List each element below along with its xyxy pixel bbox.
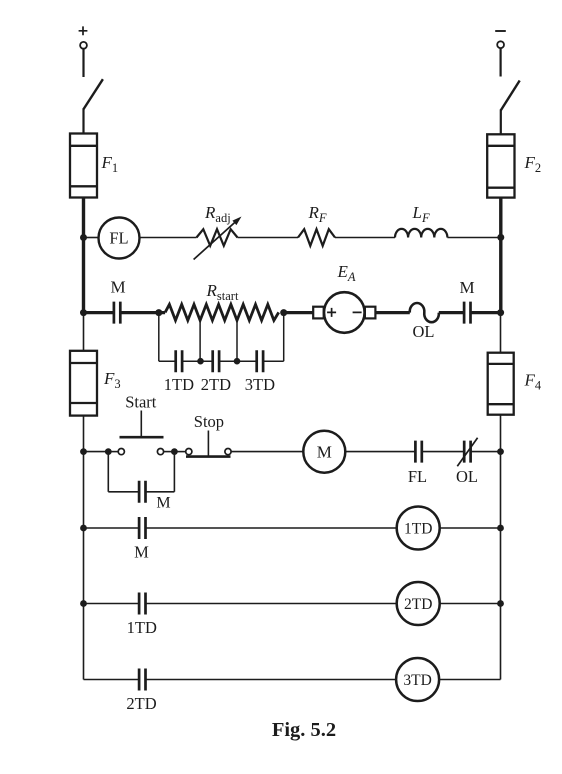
fuse F2 (487, 134, 514, 197)
svg-text:Radj: Radj (204, 203, 231, 225)
svg-text:F3: F3 (103, 369, 121, 391)
resistor RF (298, 229, 335, 246)
disconnect switch blade (right) (501, 81, 520, 111)
wire FL to Radj (140, 237, 197, 239)
wire Start to node (164, 451, 175, 453)
svg-text:FL: FL (408, 467, 427, 486)
wire: left bus to F3 (83, 313, 85, 351)
wire FL to OL contact (422, 451, 464, 453)
pushbutton Stop (NC) (186, 431, 231, 457)
wire OL contact to right bus (471, 451, 501, 453)
overload heater OL (410, 303, 439, 322)
wire: armature row left segment (84, 311, 114, 314)
coil M (303, 431, 345, 473)
contact OL (NC with slash) (457, 438, 477, 467)
resistor Rstart (165, 304, 279, 320)
svg-text:EA: EA (337, 262, 356, 284)
pushbutton Start (NO) (118, 411, 163, 455)
fuse F4 (488, 353, 514, 415)
node: rung3 right (497, 600, 504, 607)
svg-text:M: M (134, 543, 149, 562)
contact M (armature, left) (114, 302, 120, 324)
svg-text:Start: Start (125, 393, 157, 412)
wire Stop to coil M (231, 451, 303, 453)
wire node to Stop (174, 451, 185, 453)
svg-text:Stop: Stop (194, 412, 224, 431)
wire: seal-in branch bottom right (146, 491, 175, 493)
disconnect switch blade (left) (83, 79, 103, 109)
svg-text:M: M (317, 443, 332, 462)
contact 2TD (rung4) (139, 669, 145, 691)
node: bypass junction 1 (197, 358, 204, 365)
contact 1TD (bypass) (176, 350, 182, 372)
contact M (rung2) (139, 517, 145, 539)
node: rung1 right (497, 448, 504, 455)
svg-text:Rstart: Rstart (206, 281, 239, 303)
wire M contact to Rstart (120, 311, 165, 314)
svg-text:3TD: 3TD (245, 375, 275, 394)
motor armature EA (313, 292, 375, 333)
node: Rstart left (155, 309, 162, 316)
svg-text:2TD: 2TD (404, 596, 432, 613)
wire rung3 right (440, 603, 501, 605)
wire rung2 middle (146, 527, 397, 529)
contact 3TD (bypass) (257, 350, 263, 372)
wire: seal-in branch bottom left (108, 491, 139, 493)
node: left armature junction (80, 309, 87, 316)
coil FL (field loss relay) (99, 218, 140, 259)
svg-text:F1: F1 (101, 153, 119, 175)
svg-text:F2: F2 (524, 153, 542, 175)
wire rung4 middle (146, 679, 397, 681)
svg-text:FL: FL (109, 229, 128, 248)
wire Radj to RF (238, 237, 299, 239)
wire rung3 left (84, 603, 140, 605)
wire motor to OL heater (375, 311, 409, 314)
wire from switch to fuse F1 (82, 109, 84, 134)
svg-text:OL: OL (456, 467, 478, 486)
node: Rstart right (280, 309, 287, 316)
contact 2TD (bypass) (213, 350, 219, 372)
coil 3TD (396, 658, 439, 701)
wire rung2 right (440, 527, 501, 529)
wire rung2 left (84, 527, 140, 529)
wire from switch to fuse F2 (500, 110, 502, 135)
wire: thick left bus from F1 to armature row (82, 198, 85, 315)
rheostat Radj (194, 217, 242, 260)
contact 1TD (rung3) (139, 593, 145, 615)
wire: right bus F4 down to bottom rung (500, 415, 502, 680)
node: left field junction (80, 234, 87, 241)
wire Rstart to motor (284, 311, 314, 314)
contact M (armature, right) (464, 302, 470, 324)
wire: left bus F3 down to bottom rung (83, 416, 85, 680)
wire rung1: bus to seal-in node (84, 451, 109, 453)
node: seal-in left (105, 448, 112, 455)
wire coil M to FL contact (345, 451, 415, 453)
wire from + terminal down (82, 49, 84, 77)
svg-text:1TD: 1TD (164, 375, 194, 394)
wire: Rstart tap 1 (down from first tap) (199, 320, 201, 361)
svg-text:3TD: 3TD (403, 672, 431, 689)
node: after Start (171, 448, 178, 455)
svg-text:M: M (459, 278, 474, 297)
svg-text:LF: LF (412, 203, 430, 225)
wire: thick right bus from F2 to armature row (499, 198, 502, 315)
node: right armature junction (497, 309, 504, 316)
svg-text:RF: RF (308, 203, 327, 225)
wire from - terminal down (500, 48, 502, 76)
+ terminal (positive supply) (79, 26, 88, 48)
wire rung4 left (84, 679, 140, 681)
wire: bypass row segments (159, 360, 284, 362)
wire rung4 right (439, 679, 500, 681)
wire to Start contact (108, 451, 118, 453)
fuse F3 (70, 351, 97, 416)
svg-text:M: M (110, 278, 125, 297)
node: rung1 left (80, 448, 87, 455)
node: bypass junction 2 (234, 358, 241, 365)
svg-text:M: M (156, 495, 170, 512)
wire LF to right bus (447, 237, 500, 239)
wire: bypass row left drop (158, 313, 160, 362)
wire: bypass row right drop (283, 313, 285, 362)
svg-text:2TD: 2TD (126, 694, 156, 713)
wire M contact to right bus (471, 311, 501, 314)
wire RF to LF (335, 237, 395, 239)
contact FL (NO) (415, 441, 421, 463)
wire OL to M contact (439, 311, 464, 314)
wire to FL coil (85, 237, 99, 239)
node: rung2 left (80, 525, 87, 532)
fuse F1 (70, 134, 97, 198)
coil 2TD (397, 582, 440, 625)
svg-text:OL: OL (413, 322, 435, 341)
svg-text:1TD: 1TD (127, 618, 157, 637)
node: rung2 right (497, 525, 504, 532)
svg-text:Fig. 5.2: Fig. 5.2 (272, 719, 336, 741)
wire: seal-in branch right rise (173, 452, 175, 492)
contact M (seal-in) (139, 481, 145, 503)
svg-text:2TD: 2TD (201, 375, 231, 394)
- terminal (negative supply) (495, 31, 506, 48)
svg-text:1TD: 1TD (404, 520, 432, 537)
wire: seal-in branch left drop (107, 452, 109, 492)
wire rung3 middle (146, 603, 397, 605)
node: rung3 left (80, 600, 87, 607)
inductor LF (395, 229, 447, 238)
node: right field junction (497, 234, 504, 241)
svg-text:F4: F4 (524, 371, 542, 393)
wire: right bus to F4 (500, 313, 502, 353)
wire: Rstart tap 2 (down from second tap) (236, 320, 238, 361)
coil 1TD (397, 507, 440, 550)
